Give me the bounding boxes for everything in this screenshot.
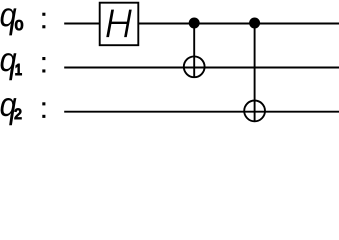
target CNOT2 (q2) [244, 101, 265, 122]
node q1 label [1, 53, 46, 80]
wire CNOT1 vertical [193, 24, 195, 78]
wire q2 [64, 111, 339, 113]
node q0 label [1, 8, 46, 35]
gate H box [100, 3, 139, 46]
wire CNOT2 vertical [254, 24, 256, 122]
gate H label [106, 9, 132, 37]
node q2 label [1, 98, 46, 125]
wire q1 [64, 67, 339, 69]
wire q0 [64, 23, 339, 25]
control dot CNOT2 (q0) [249, 18, 260, 29]
target CNOT1 (q1) [184, 56, 205, 77]
control dot CNOT1 (q0) [189, 18, 200, 29]
